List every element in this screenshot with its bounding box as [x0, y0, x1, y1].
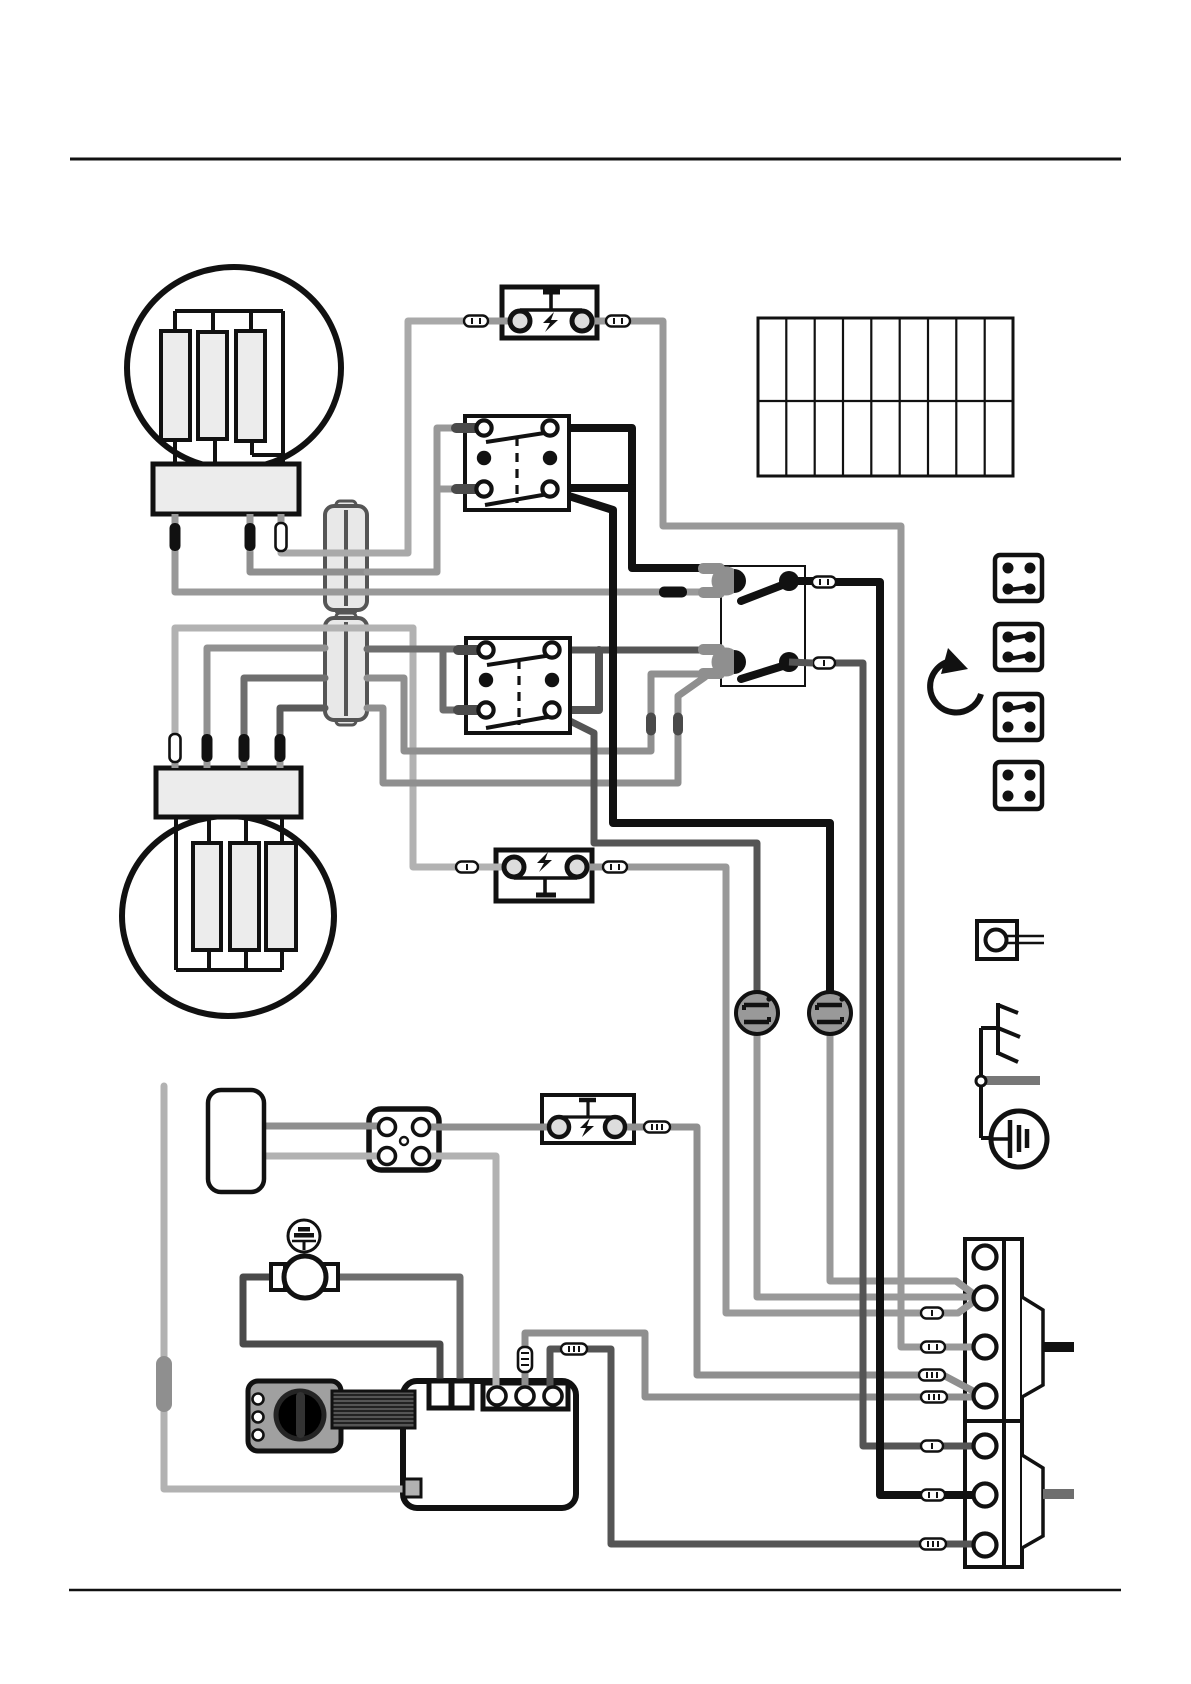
- trim sender icon: [981, 1003, 1020, 1076]
- node junction: [976, 1076, 986, 1086]
- wire main switch lower out to terminal c5 (dark gray): [836, 663, 974, 1446]
- engine ground circle: [991, 1111, 1047, 1167]
- K1 pins: [476, 420, 557, 496]
- fork terminal T1: [698, 563, 746, 598]
- K2 dashed divider: [517, 660, 520, 725]
- wire CN2 to fork2 upper path (gray): [367, 674, 704, 751]
- K1 dashed divider: [515, 437, 518, 503]
- wire battery lead left long (light gray): [164, 1086, 407, 1489]
- stator A1 bullet black 2: [245, 523, 256, 551]
- wire fuse F3 out to terminal c4 upper (gray): [615, 1127, 975, 1392]
- wire relay K2 right jumper (dark gray): [556, 650, 599, 710]
- wire stator1 coil2 to CN1 (gray): [250, 548, 367, 572]
- main switch box: [721, 566, 805, 686]
- terminal block lower plug trapezoid: [1022, 1455, 1043, 1548]
- inline connector on switch upper out: [812, 577, 836, 588]
- stator / alternator A1 (top): [127, 267, 341, 552]
- K1 left stubs: [451, 423, 481, 433]
- pinout box S1: [995, 555, 1042, 601]
- stator A2 inner bus: [176, 817, 282, 970]
- rotation arrow: [930, 648, 981, 712]
- inline connector black on stator1-fork1 wire: [659, 587, 687, 598]
- bottom rule: [69, 1589, 1121, 1591]
- module 3-pin holes: [488, 1387, 562, 1405]
- sleeve on battery lead: [156, 1356, 172, 1412]
- control module box: [403, 1381, 576, 1508]
- connector capsule CN2: [325, 613, 367, 725]
- wire fuse F2 out to terminal c2 lower (gray): [577, 867, 976, 1313]
- wire fuse F1 out to terminal c3 (gray): [582, 321, 974, 1347]
- resistor R1 on module pin2 wire: [518, 1347, 532, 1372]
- stator A2 header block: [156, 768, 301, 817]
- relay / rectifier K2: [453, 638, 570, 733]
- main switch pivot lower: [779, 652, 799, 672]
- wire relay K1 BR to bullet P2 (black): [553, 491, 830, 1016]
- module top rect pin B: [452, 1381, 472, 1408]
- inline connector on F3 right: [644, 1122, 670, 1133]
- K1 contact diagonal top: [486, 432, 551, 442]
- wire relay K1 left jumper BL (gray): [437, 486, 452, 493]
- inline connector on c4 lower wire: [921, 1392, 947, 1403]
- anode bar: [983, 1076, 1040, 1085]
- wire gauge to 4-hole connector lower (light gray): [264, 1153, 387, 1160]
- ribbed cable: [332, 1391, 415, 1428]
- inline connector on c6 wire: [921, 1490, 945, 1501]
- wire module resistor to terminal c4 lower (gray): [525, 1333, 974, 1397]
- inline connector on F1 left: [464, 316, 488, 327]
- stator A2 pigtails: [175, 745, 280, 768]
- terminal grid table: [758, 318, 1013, 476]
- stator A1 pigtails: [175, 514, 281, 552]
- LAYER2 wires: [164, 321, 976, 1544]
- inline connector on switch lower out: [813, 658, 835, 669]
- K2 pins: [478, 642, 559, 717]
- ground lead: [981, 1086, 993, 1138]
- wire bullet P1 down to terminal c2 middle (gray): [757, 1030, 974, 1297]
- module top rect pin A: [429, 1381, 451, 1408]
- fuse F1 internals: [510, 292, 592, 332]
- inline connector on c5 wire: [921, 1441, 943, 1452]
- top rule: [70, 158, 1121, 161]
- key knob: [274, 1389, 327, 1442]
- bullet connector P1: [736, 992, 778, 1034]
- K2 dot right: [545, 673, 559, 687]
- inline connector on c2 lower wire: [921, 1308, 943, 1319]
- wire module pin3 to terminal c7 (dark gray): [550, 1349, 974, 1544]
- bullet connector P2: [809, 992, 851, 1034]
- wire main switch upper out to terminal c6 (black): [836, 582, 974, 1495]
- vertical dark connector on fork2 lower path: [673, 713, 683, 736]
- pinout box S2: [995, 624, 1042, 670]
- fuse F2 internals: [504, 852, 587, 895]
- stator A1 coil 1: [161, 331, 190, 440]
- pinout box S4: [995, 762, 1042, 809]
- spark plug icon: [977, 921, 1044, 959]
- main switch pivot upper: [779, 571, 799, 591]
- stator A1 coil 2: [198, 332, 227, 439]
- stator A2 flywheel circle: [122, 816, 334, 1016]
- wire CN2 to fork2 lower path (gray): [367, 677, 705, 783]
- terminal block upper body: [965, 1239, 1004, 1421]
- module bottom-left tab: [404, 1479, 421, 1497]
- stator A2 coil 2: [230, 843, 259, 950]
- wire CN2 to relay K2 TL (gray): [367, 646, 455, 653]
- stator A1 header block: [153, 464, 299, 514]
- terminal block upper plug trapezoid: [1022, 1297, 1043, 1397]
- wire stator2 phase2 to CN2 (gray): [207, 648, 325, 740]
- inline connector on c4 upper wire: [919, 1370, 945, 1381]
- main switch arm lower: [741, 665, 786, 679]
- fork terminal T2: [698, 644, 746, 679]
- wire relay K1 TR to fork1 (black): [556, 428, 704, 568]
- terminal block lower stub: [1043, 1489, 1074, 1499]
- key switch panel: [248, 1381, 341, 1451]
- K2 left stubs: [453, 645, 483, 655]
- inline connector on c7 wire: [920, 1539, 946, 1550]
- wire relay K1 BR jumper (black): [556, 484, 632, 492]
- wire bullet P2 down to terminal c2 upper (gray): [830, 1030, 975, 1295]
- stator A1 bullet white 3: [276, 523, 287, 551]
- stator A2 bullet white 1: [170, 734, 181, 762]
- inline connector on module pin3 wire: [561, 1344, 587, 1355]
- terminal block upper stub: [1043, 1342, 1074, 1352]
- wire gauge to 4-hole connector upper (gray): [264, 1123, 387, 1130]
- K1 dot right: [543, 451, 557, 465]
- pinout box S3: [995, 694, 1042, 740]
- inline connector on F2 left: [456, 862, 478, 873]
- stator A1 coil 3: [236, 331, 265, 441]
- terminal block circles: [974, 1246, 997, 1557]
- module 3-pin connector box: [483, 1383, 568, 1409]
- wire stator2 phase1 to CN2 (light gray): [175, 628, 413, 740]
- wire stator2 phase4 to CN2 (dark gray): [280, 708, 325, 740]
- stator A2 bullet black 4: [275, 734, 286, 762]
- connector capsule CN1: [325, 501, 367, 614]
- inline connector on F2 right: [603, 862, 627, 873]
- wire CN2 to fuse F2 (light gray): [413, 628, 514, 867]
- stator A1 top bus: [175, 311, 283, 466]
- vertical dark connector on fork2 upper path: [646, 713, 656, 736]
- wire relay K2 BR to bullet P1 (dark gray): [554, 713, 757, 1016]
- 4-hole connector holes: [379, 1119, 430, 1165]
- wire stator1 coil1 to fork1 (gray): [175, 548, 700, 592]
- fuse F1 box: [502, 287, 597, 338]
- wire horn left loop to module (dark gray): [243, 1277, 440, 1385]
- stator A2 bullet black 2: [202, 734, 213, 762]
- K2 dot left: [479, 673, 493, 687]
- wire stator2 phase3 to CN2 (gray): [244, 678, 325, 740]
- terminal block lower body: [965, 1421, 1004, 1567]
- stator A1 bullet black 1: [170, 523, 181, 551]
- stator A1 flywheel circle: [127, 267, 341, 469]
- inline connector on F1 right: [606, 316, 630, 327]
- stator A2 bullet black 3: [239, 734, 250, 762]
- fuse F2 box: [496, 850, 592, 901]
- stator / alternator A2 (lower): [122, 734, 334, 1016]
- K1 contact diagonal bottom: [485, 493, 554, 505]
- stator A2 coil 3: [266, 843, 296, 950]
- gauge / battery box: [208, 1090, 264, 1192]
- fuse F3 internals: [549, 1100, 625, 1137]
- wire relay K2 left jumper (gray): [443, 649, 455, 710]
- inline connector on c3 wire: [921, 1342, 945, 1353]
- main switch arm upper: [741, 584, 785, 601]
- relay / rectifier K1: [451, 416, 569, 510]
- K2 contact diagonal top: [487, 655, 552, 665]
- wire stator1 coil3 to CN1 to fuse F1 (light gray): [281, 321, 470, 553]
- fuse F3 box: [542, 1095, 634, 1143]
- wire relay K2 TR to fork2 (dark gray): [556, 647, 704, 654]
- stator A2 coil 1: [193, 843, 221, 950]
- K2 contact diagonal bottom: [486, 716, 553, 728]
- ground symbol circle above horn: [288, 1220, 320, 1252]
- wire 4-hole connector to module pin1 (light gray): [421, 1156, 496, 1396]
- wire CN1 to relay K1 left pins (gray): [367, 428, 452, 572]
- wire fuse F1 in (gray): [486, 318, 520, 325]
- horn / choke solenoid: [271, 1256, 338, 1298]
- wire 4-hole connector to fuse F3 (gray): [421, 1124, 559, 1131]
- 4-hole connector box: [369, 1109, 439, 1170]
- wire horn right to module (gray): [333, 1277, 460, 1385]
- K1 dot left: [477, 451, 491, 465]
